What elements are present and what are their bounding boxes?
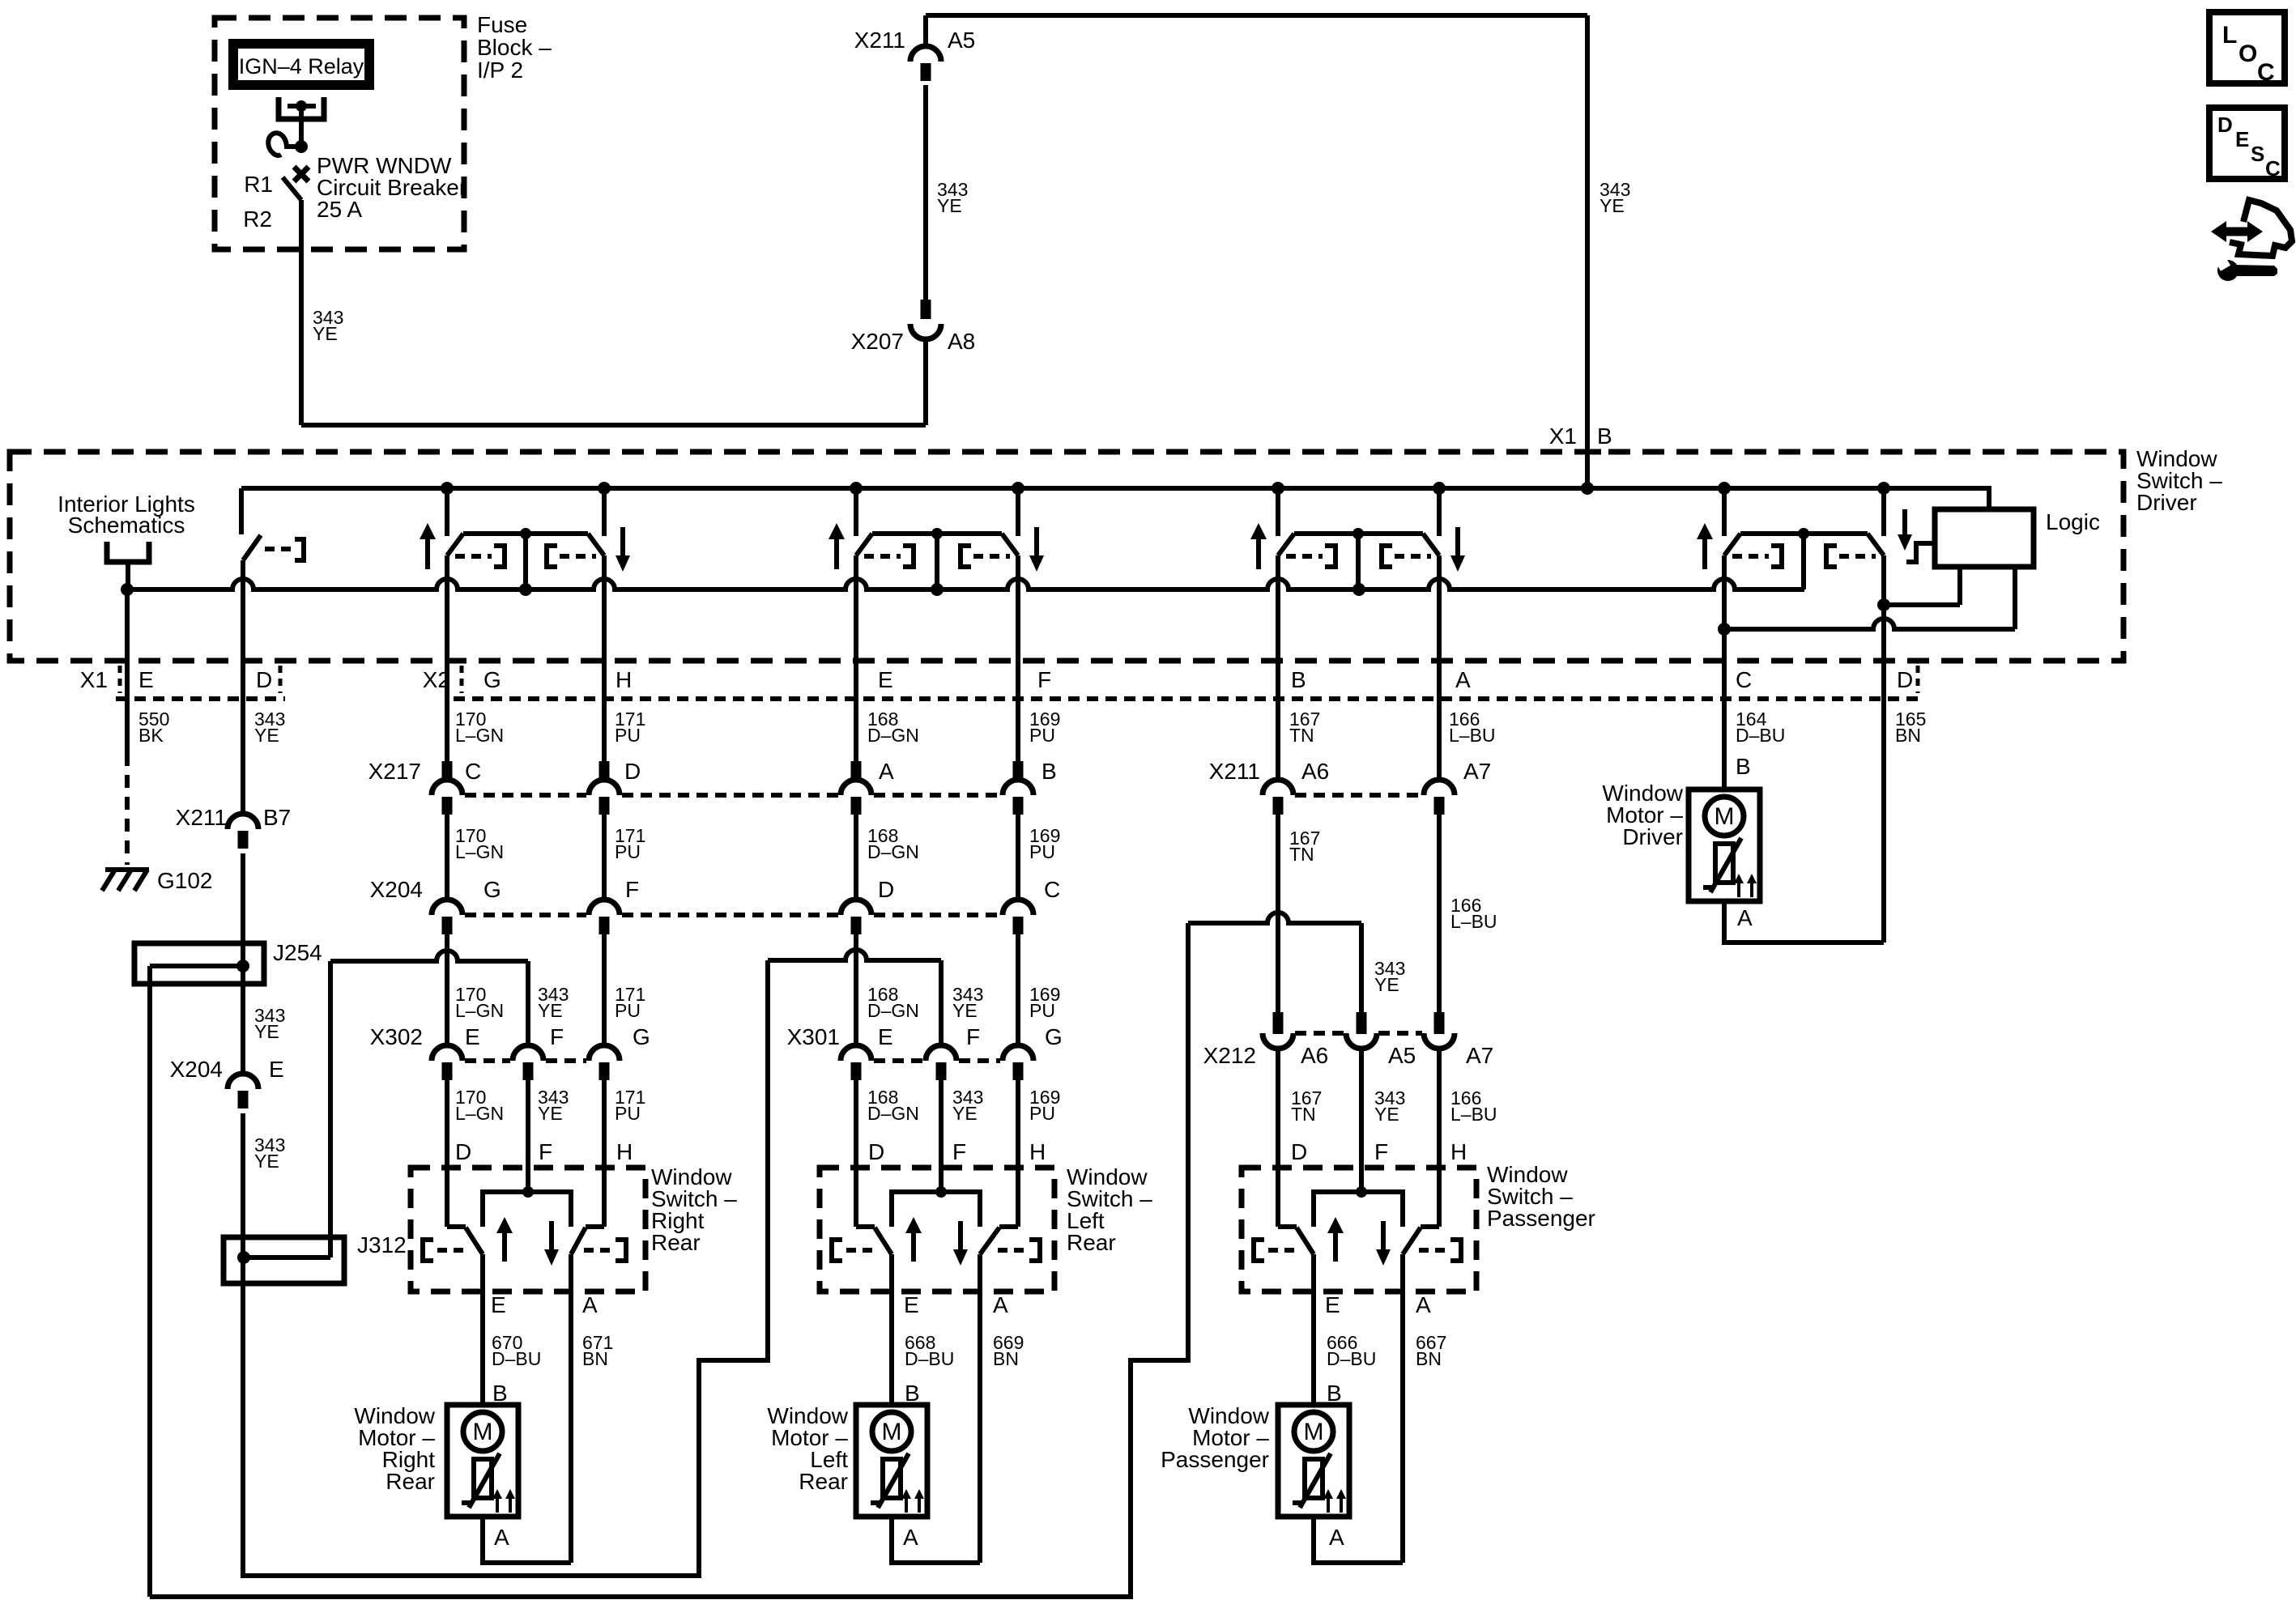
passenger output wire E [1311, 1254, 1316, 1406]
svg-text:B7: B7 [263, 805, 291, 830]
svg-text:Block –: Block – [477, 35, 552, 60]
svg-text:A: A [1737, 905, 1753, 930]
svg-text:C: C [2257, 59, 2275, 86]
connector X211 pin A6 [1263, 759, 1329, 815]
svg-text:A: A [1416, 1292, 1431, 1317]
svg-text:A6: A6 [1301, 759, 1329, 784]
label X1 connector [80, 666, 120, 693]
svg-text:YE: YE [538, 1000, 563, 1021]
wire label 166 L-BU r1 [1449, 709, 1496, 746]
passenger up arrow [1327, 1217, 1344, 1262]
svg-text:G: G [633, 1024, 650, 1049]
connector face dash X1 [116, 696, 285, 701]
svg-text:X204: X204 [170, 1057, 223, 1082]
wire 168 X204 to X301 [854, 933, 858, 1045]
svg-text:E: E [878, 1024, 893, 1049]
window motor passenger box [1278, 1405, 1349, 1517]
ground G102 symbol [102, 870, 149, 891]
pin A / label 669 BN (lr) [993, 1292, 1024, 1369]
wire 169 X217 to X204 [1016, 815, 1020, 900]
passenger switch wire H in [1421, 1047, 1439, 1227]
svg-text:O: O [2238, 40, 2257, 67]
svg-text:D: D [1897, 667, 1913, 692]
wire label 171 PU r3 [615, 984, 645, 1021]
pin G (170) [483, 667, 501, 692]
connector X301 pin G [1003, 1024, 1063, 1080]
svg-text:A: A [993, 1292, 1008, 1317]
wire label 165 BN [1895, 709, 1926, 746]
left rear up arrow [905, 1217, 922, 1262]
label X1 B at box entry [1549, 423, 1612, 452]
svg-text:Driver: Driver [1622, 824, 1683, 849]
svg-text:B: B [1291, 667, 1306, 692]
window switch right rear dashed box [411, 1168, 645, 1291]
connector X302 face dashes [465, 1058, 586, 1063]
wire motor A loop left rear [892, 1517, 980, 1563]
wire label 169 PU r4 [1029, 1087, 1060, 1124]
circuit breaker contact X [294, 167, 309, 181]
pin A below lr motor [903, 1525, 918, 1550]
svg-text:YE: YE [952, 1103, 978, 1124]
wire label 171 PU r1 [615, 709, 645, 746]
label Logic [2046, 509, 2100, 534]
left rear switch common staple [892, 1186, 980, 1227]
passenger switch feed wire F [1359, 1047, 1364, 1192]
right rear switch lever down [571, 1228, 586, 1254]
icon LOC box [2209, 12, 2285, 86]
label X2 connector [423, 666, 462, 693]
wire 343 YE through J254 [241, 943, 245, 1074]
svg-text:X211: X211 [854, 28, 905, 53]
svg-text:Logic: Logic [2046, 509, 2100, 534]
svg-text:E: E [491, 1292, 506, 1317]
pin D (165) [1897, 666, 1918, 693]
svg-text:A: A [903, 1525, 918, 1550]
svg-text:E: E [138, 667, 154, 692]
svg-text:H: H [616, 667, 632, 692]
svg-text:D: D [455, 1139, 471, 1164]
svg-text:D–GN: D–GN [867, 725, 919, 746]
connector X212 face dashes [1295, 1031, 1422, 1036]
pin B driver motor [1736, 754, 1751, 779]
wire J254 to bottom bus [147, 966, 152, 1597]
svg-text:PU: PU [1029, 841, 1055, 862]
logic box [1935, 509, 2034, 567]
connector face dash X2 [454, 696, 1918, 701]
right rear output wire E [480, 1254, 485, 1406]
svg-text:D–BU: D–BU [905, 1348, 954, 1369]
connector X217 pin B [1003, 759, 1057, 815]
label Window Switch - Passenger [1487, 1162, 1595, 1231]
wire 343 YE drop to X1-B [1585, 15, 1590, 488]
label R2 [243, 206, 272, 232]
svg-text:L–GN: L–GN [455, 725, 504, 746]
window motor driver M circle [1705, 797, 1744, 836]
wire 343 YE below lever [241, 560, 245, 814]
svg-text:C: C [465, 759, 481, 784]
splice J254 [134, 943, 264, 984]
pin B (167) [1291, 667, 1306, 692]
svg-text:X211: X211 [1209, 759, 1260, 784]
wire label 170 L-GN r2 [455, 825, 504, 862]
svg-text:L: L [2222, 22, 2237, 49]
right rear output wire A [569, 1254, 573, 1563]
switch pin H pass [1450, 1139, 1467, 1164]
wire 169 X204 to X301 [1016, 933, 1020, 1045]
wire 167 rocker to X211 [1276, 598, 1280, 781]
svg-text:Schematics: Schematics [68, 513, 185, 538]
right rear switch wire H in [586, 1080, 604, 1227]
pin F (169) [1037, 667, 1051, 692]
svg-text:PU: PU [1029, 1000, 1055, 1021]
driver down lever leg [1877, 555, 1890, 611]
svg-text:Rear: Rear [651, 1230, 701, 1255]
svg-text:YE: YE [952, 1000, 978, 1021]
svg-text:25 A: 25 A [317, 197, 362, 222]
svg-text:F: F [1374, 1139, 1388, 1164]
svg-text:E: E [465, 1024, 480, 1049]
svg-text:YE: YE [538, 1103, 563, 1124]
svg-text:Passenger: Passenger [1487, 1206, 1595, 1231]
svg-text:L–BU: L–BU [1450, 911, 1497, 932]
svg-text:BN: BN [582, 1348, 608, 1369]
svg-text:L–GN: L–GN [455, 841, 504, 862]
passenger left contact [1254, 1240, 1301, 1261]
window motor right rear arrows [492, 1489, 515, 1513]
svg-text:D–BU: D–BU [492, 1348, 541, 1369]
wire motor A loop passenger [1314, 1517, 1403, 1563]
svg-text:A6: A6 [1301, 1043, 1328, 1068]
right rear switch lever up [466, 1228, 483, 1254]
wire 166 rocker to X211 [1437, 598, 1442, 781]
right rear right contact [584, 1240, 626, 1261]
svg-text:YE: YE [1374, 974, 1399, 995]
switch pin D pass [1291, 1139, 1307, 1164]
svg-text:D–BU: D–BU [1327, 1348, 1376, 1369]
right rear switch wire D in [447, 1080, 466, 1227]
wire label 170 L-GN r3 [455, 984, 504, 1021]
wire label 343 YE lr [952, 984, 983, 1021]
svg-text:X211: X211 [176, 805, 227, 830]
icon wrench [2216, 257, 2277, 281]
wire label 170 L-GN r1 [455, 709, 504, 746]
svg-text:PU: PU [615, 725, 641, 746]
svg-text:BN: BN [993, 1348, 1019, 1369]
interior lights dimming switch [241, 488, 261, 560]
label Window Switch - Right Rear [651, 1164, 737, 1255]
svg-text:D: D [878, 877, 894, 902]
svg-text:E: E [878, 667, 893, 692]
wire 343 YE horizontal to X207 [301, 341, 926, 425]
label Window Motor left rear [767, 1403, 848, 1494]
label X207 A8 [851, 329, 976, 354]
left rear right contact [998, 1240, 1040, 1261]
svg-text:F: F [952, 1139, 966, 1164]
svg-text:H: H [616, 1139, 633, 1164]
wire label 343 YE rr2 [538, 1087, 569, 1124]
wire label 167 TN r2 [1289, 828, 1320, 865]
svg-text:X212: X212 [1203, 1043, 1256, 1068]
label X301 connector [787, 1024, 840, 1049]
svg-text:Passenger: Passenger [1161, 1447, 1269, 1472]
pin E / label 670 D-BU / pin B (rr) [491, 1292, 541, 1406]
svg-text:M: M [473, 1419, 493, 1445]
wire label 343 YE mid2 [254, 1134, 285, 1172]
icon glass outline [2230, 200, 2292, 256]
right rear switch feed wire F [526, 1080, 530, 1192]
driver switch supply line [241, 488, 1989, 509]
junction dots on supply line [441, 482, 1890, 495]
label Window Switch - Driver [2136, 446, 2222, 515]
svg-text:B: B [1042, 759, 1057, 784]
pin D (343) [256, 666, 280, 693]
passenger switch wire D in [1278, 1047, 1297, 1227]
svg-text:B: B [1597, 423, 1612, 449]
pin A / label 667 BN (pass) [1416, 1292, 1446, 1369]
switch pin F lr [952, 1139, 966, 1164]
left rear switch lever up [875, 1228, 892, 1254]
wire label 168 D-GN r3 [867, 984, 919, 1021]
svg-text:TN: TN [1291, 1104, 1316, 1125]
jumper 343 to X301-F [768, 950, 941, 1045]
svg-text:M: M [1715, 803, 1735, 830]
svg-text:E: E [904, 1292, 919, 1317]
svg-text:D–GN: D–GN [867, 1000, 919, 1021]
svg-text:M: M [882, 1419, 902, 1445]
svg-text:BN: BN [1895, 725, 1921, 746]
left rear switch wire D in [856, 1080, 875, 1227]
switch pin H lr [1029, 1139, 1046, 1164]
left rear output wire E [889, 1254, 894, 1406]
wire 170 rocker leg to X217 [445, 598, 449, 762]
label Window Motor driver [1602, 781, 1683, 849]
svg-text:J254: J254 [273, 940, 322, 965]
connector X212 pin A5 [1346, 1012, 1416, 1068]
svg-text:X1: X1 [80, 667, 108, 692]
svg-text:C: C [1736, 667, 1752, 692]
window motor right rear thermistor [462, 1453, 500, 1508]
ground bus line [127, 579, 1804, 589]
driver down arrow [1898, 509, 1912, 551]
svg-text:D: D [256, 667, 272, 692]
svg-text:X301: X301 [787, 1024, 840, 1049]
relay IGN-4 name box [233, 44, 369, 85]
wire label 171 PU r4 [615, 1087, 645, 1124]
wire 550 BK [125, 589, 130, 753]
svg-text:BN: BN [1416, 1348, 1442, 1369]
svg-text:Driver: Driver [2136, 490, 2197, 515]
left rear switch feed wire F [939, 1080, 944, 1192]
connector X204 pin D [841, 877, 894, 934]
pin C (164) [1736, 667, 1752, 692]
link 164 to logic (y777) [1718, 568, 2015, 636]
svg-text:YE: YE [1600, 195, 1625, 216]
svg-text:X302: X302 [370, 1024, 423, 1049]
label X217 connector [368, 759, 421, 784]
svg-text:E: E [269, 1057, 284, 1082]
svg-text:PU: PU [615, 1000, 641, 1021]
fuse block label [477, 12, 552, 83]
svg-text:E: E [2235, 127, 2249, 151]
riser J312 to jumper [328, 961, 333, 1257]
relay contact symbol [279, 97, 324, 119]
rocker switch right-rear-window (driver pad) [420, 488, 630, 603]
svg-text:IGN–4 Relay: IGN–4 Relay [239, 54, 364, 79]
svg-text:YE: YE [254, 725, 279, 746]
svg-text:F: F [550, 1024, 564, 1049]
pin E / label 668 D-BU / pin B (lr) [904, 1292, 954, 1406]
wire label 169 PU r1 [1029, 709, 1060, 746]
svg-text:A: A [1455, 667, 1471, 692]
window motor left rear arrows [901, 1489, 924, 1513]
switch pin H rr [616, 1139, 633, 1164]
svg-text:Rear: Rear [1067, 1230, 1116, 1255]
connector X204 pin F [589, 877, 639, 934]
svg-text:TN: TN [1289, 725, 1314, 746]
wire 165 BN driver [1881, 605, 1886, 943]
connector X204 face dashes [465, 913, 1000, 917]
svg-text:X1: X1 [1549, 423, 1577, 449]
svg-text:D: D [1291, 1139, 1307, 1164]
svg-text:G: G [1045, 1024, 1063, 1049]
svg-text:B: B [1736, 754, 1751, 779]
svg-text:L–GN: L–GN [455, 1000, 504, 1021]
window motor passenger M circle [1294, 1412, 1333, 1451]
window switch driver dashed box [10, 452, 2123, 661]
left rear down arrow [953, 1221, 968, 1266]
svg-text:J312: J312 [357, 1232, 407, 1257]
svg-text:YE: YE [313, 323, 338, 344]
pin E (168) [878, 667, 893, 692]
circuit breaker lever [283, 177, 301, 200]
svg-text:A: A [582, 1292, 598, 1317]
svg-text:X217: X217 [368, 759, 421, 784]
connector X204 pin G [432, 877, 501, 934]
svg-text:Rear: Rear [799, 1469, 848, 1494]
svg-text:D: D [624, 759, 641, 784]
svg-text:A7: A7 [1466, 1043, 1493, 1068]
connector X211 pin A7 [1424, 759, 1491, 815]
rocker switch passenger-window (driver pad) [1250, 488, 1465, 603]
label Window Motor right rear [354, 1403, 435, 1494]
rocker switch driver-window (driver pad) [1697, 488, 1884, 603]
svg-text:D–GN: D–GN [867, 1103, 919, 1124]
interior switch contact link [265, 539, 304, 560]
wire 170 X217 to X204 [445, 815, 449, 900]
connector X301 face dashes [874, 1058, 1000, 1063]
svg-text:R1: R1 [244, 172, 273, 197]
label X211 A5 [854, 28, 976, 53]
interior lights tap bracket [107, 542, 149, 589]
splice J312 [224, 1237, 344, 1283]
connector X302 pin E [432, 1024, 480, 1080]
svg-text:E: E [1325, 1292, 1340, 1317]
pin A driver motor [1737, 905, 1753, 930]
passenger switch common staple [1314, 1186, 1403, 1227]
svg-text:YE: YE [254, 1021, 279, 1042]
label J254 [273, 940, 322, 965]
wire driver motor A loop [1724, 901, 1884, 943]
svg-text:A8: A8 [948, 329, 975, 354]
svg-text:X207: X207 [851, 329, 904, 354]
svg-text:S: S [2251, 142, 2264, 166]
label X211 B7 [176, 805, 292, 830]
fuse block I/P 2 dashed outline [215, 18, 464, 249]
svg-text:PU: PU [615, 1103, 641, 1124]
pin E (550) [138, 667, 154, 692]
wire 169 rocker leg to X217 [1016, 598, 1020, 762]
svg-text:L–BU: L–BU [1450, 1104, 1497, 1125]
svg-text:G: G [483, 667, 501, 692]
svg-text:A: A [494, 1525, 509, 1550]
window motor passenger arrows [1323, 1489, 1346, 1513]
icon double arrow [2211, 221, 2263, 242]
bottom bus to passenger feed [150, 923, 1188, 1597]
svg-text:TN: TN [1289, 844, 1314, 865]
connector X301 pin E [841, 1024, 893, 1080]
wire 170 X204 to X302 [445, 933, 449, 1045]
wire label 343 YE passenger [1374, 958, 1405, 995]
pin E / label 666 D-BU / pin B (pass) [1325, 1292, 1376, 1406]
svg-text:PU: PU [615, 841, 641, 862]
label R1 [244, 172, 273, 197]
connector X302 pin G [589, 1024, 650, 1080]
wire label 166 L-BU r3 [1450, 1087, 1497, 1125]
svg-text:G102: G102 [157, 868, 213, 893]
window motor driver thermistor [1703, 838, 1741, 892]
wire label 343 YE rr [538, 984, 569, 1021]
pin H (171) [616, 667, 632, 692]
left rear output wire A [978, 1254, 982, 1563]
wire label 166 L-BU mid [1450, 895, 1497, 932]
wire 168 rocker leg to X217 [854, 598, 858, 762]
passenger switch lever down [1403, 1228, 1421, 1254]
connector X217 pin D [589, 759, 641, 815]
connector X217 pin A [841, 759, 894, 815]
window motor right rear M circle [463, 1412, 502, 1451]
left rear left contact [832, 1240, 879, 1261]
label PWR WNDW Circuit Breaker 25 A [317, 153, 466, 222]
wire label 164 D-BU [1736, 709, 1785, 746]
wire label 343 YE mid1 [254, 1005, 285, 1042]
svg-text:D–GN: D–GN [867, 841, 919, 862]
svg-text:H: H [1450, 1139, 1467, 1164]
wire label 550 BK [138, 709, 169, 746]
svg-text:YE: YE [937, 195, 962, 216]
wire label 169 PU r2 [1029, 825, 1060, 862]
link lever to logic (y747) [1884, 568, 1960, 605]
svg-text:D: D [868, 1139, 884, 1164]
svg-text:Fuse: Fuse [477, 12, 527, 37]
passenger down arrow [1376, 1221, 1391, 1266]
svg-text:BK: BK [138, 725, 164, 746]
svg-text:PU: PU [1029, 1103, 1055, 1124]
svg-text:PU: PU [1029, 725, 1055, 746]
right rear switch common staple [483, 1186, 571, 1227]
window motor passenger thermistor [1293, 1453, 1331, 1508]
label X302 connector [370, 1024, 423, 1049]
svg-text:L–BU: L–BU [1449, 725, 1496, 746]
wire 167 X211 to X212 [1276, 815, 1280, 1014]
svg-text:L–GN: L–GN [455, 1103, 504, 1124]
svg-text:F: F [539, 1139, 552, 1164]
svg-text:YE: YE [254, 1151, 279, 1172]
left rear switch wire H in [999, 1080, 1018, 1227]
svg-text:D: D [2217, 113, 2233, 137]
window motor driver arrows [1734, 874, 1757, 897]
connector X207 pin A8 [910, 300, 941, 339]
passenger output wire A [1400, 1254, 1405, 1563]
